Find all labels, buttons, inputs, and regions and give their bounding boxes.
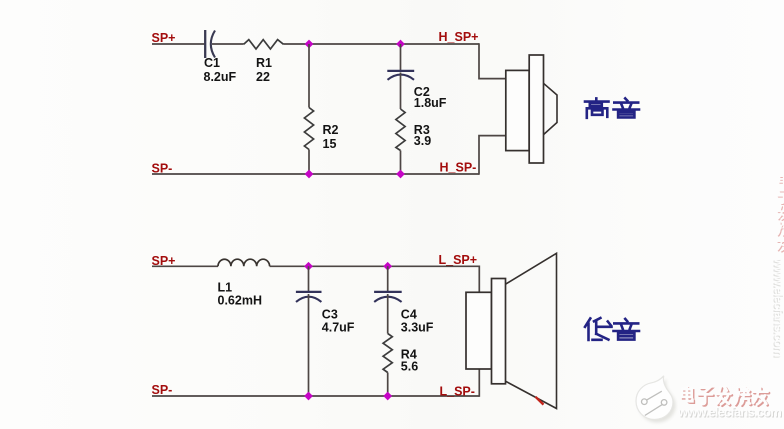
tweeter dome [544,83,558,134]
watermark vertical 电子发烧友 (right edge) [777,174,784,251]
svg-text:www.elecfans.com: www.elecfans.com [677,405,781,420]
svg-text:C1: C1 [204,56,220,70]
node bot-ckt bottom A [304,392,313,401]
wire SP- bottom rail (low) [152,395,479,397]
node bottom A [305,170,314,179]
svg-text:5.6: 5.6 [401,359,418,373]
label 低音 (bass) [585,318,639,340]
capacitor C2 [387,71,447,110]
svg-text:22: 22 [256,70,270,84]
wire bottom-right up to tweeter [479,136,506,175]
watermark vertical www.elecfans.com (right edge) [771,257,784,358]
svg-text:SP+: SP+ [152,254,176,268]
wire C1 to R1 [212,43,244,45]
svg-text:L_SP-: L_SP- [440,384,475,398]
watermark logo (elecfans droplet) [636,376,676,423]
tweeter speaker frame [529,55,543,163]
node bot-ckt top B (C4) [383,262,392,271]
svg-text:3.9: 3.9 [414,134,431,148]
tweeter speaker magnet [506,70,529,150]
wire C4 to R4 [387,294,389,334]
label SP- (bottom circuit) [152,383,173,397]
wire node down to C4 [387,266,389,291]
wire bottom-right up to woofer magnet [478,369,480,397]
wire top-right down to tweeter [479,43,506,78]
resistor R1 [244,40,284,84]
capacitor C3 [296,292,355,334]
svg-text:R1: R1 [256,56,272,70]
wire node B down to C2 [400,44,402,70]
resistor R4 [383,334,418,374]
wire L1 to L_SP+ corner [270,265,480,267]
wire C3 down to bottom rail [308,294,310,396]
resistor R2 [304,108,338,151]
svg-text:H_SP+: H_SP+ [439,30,479,44]
label H_SP+ [439,30,479,44]
woofer cone [506,253,557,408]
wire C2 to R3 [400,73,402,110]
svg-text:8.2uF: 8.2uF [204,70,237,84]
svg-text:L_SP+: L_SP+ [439,253,478,267]
label H_SP- [440,160,477,174]
label L_SP+ [439,253,478,267]
node bot-ckt top A (C3) [304,262,313,271]
wire top-right down to woofer magnet [478,266,480,293]
wire R3 down to bottom rail [400,151,402,175]
woofer speaker frame [492,279,506,384]
node bottom B [396,170,405,179]
capacitor C1 [204,30,237,84]
wire node down to C3 [308,266,310,291]
wire node A down to R2 [308,44,310,108]
svg-text:1.8uF: 1.8uF [414,96,447,110]
svg-text:15: 15 [323,137,337,151]
wire SP+ input to L1 [152,265,218,267]
svg-text:0.62mH: 0.62mH [218,293,262,307]
watermark text 电子发烧友 (corner) [682,387,769,406]
wire R2 down to bottom rail [308,150,310,175]
svg-text:3.3uF: 3.3uF [401,320,434,334]
svg-text:R2: R2 [323,123,339,137]
node top B (junction C2 branch) [396,40,405,49]
red watermark stroke on cone [536,397,544,405]
svg-text:L1: L1 [218,280,233,294]
resistor R3 [396,109,431,151]
svg-text:C4: C4 [401,307,417,321]
woofer speaker magnet [466,292,492,369]
svg-text:www.elecfans.com: www.elecfans.com [772,257,784,357]
svg-text:SP-: SP- [152,383,173,397]
label 高音 (treble) [585,98,639,117]
label SP+ (top) [152,31,176,45]
watermark text www.elecfans.com (corner) [677,405,782,421]
label SP+ (bottom) [152,254,176,268]
svg-text:C3: C3 [322,307,338,321]
capacitor C4 [374,292,434,334]
wire SP+ input to C1 [152,43,205,45]
svg-text:H_SP-: H_SP- [440,160,477,174]
wire R1 to H_SP+ corner [284,43,480,45]
node bot-ckt bottom B [383,392,392,401]
wire SP- bottom rail [152,173,479,175]
svg-text:SP+: SP+ [152,31,176,45]
svg-text:SP-: SP- [152,161,173,175]
label SP- (top circuit) [152,161,173,175]
svg-text:4.7uF: 4.7uF [322,320,355,334]
label L_SP- [440,384,475,398]
node top A (junction R1/R2) [305,40,314,49]
inductor L1 [218,259,270,307]
wire R4 down to bottom rail [387,373,389,397]
